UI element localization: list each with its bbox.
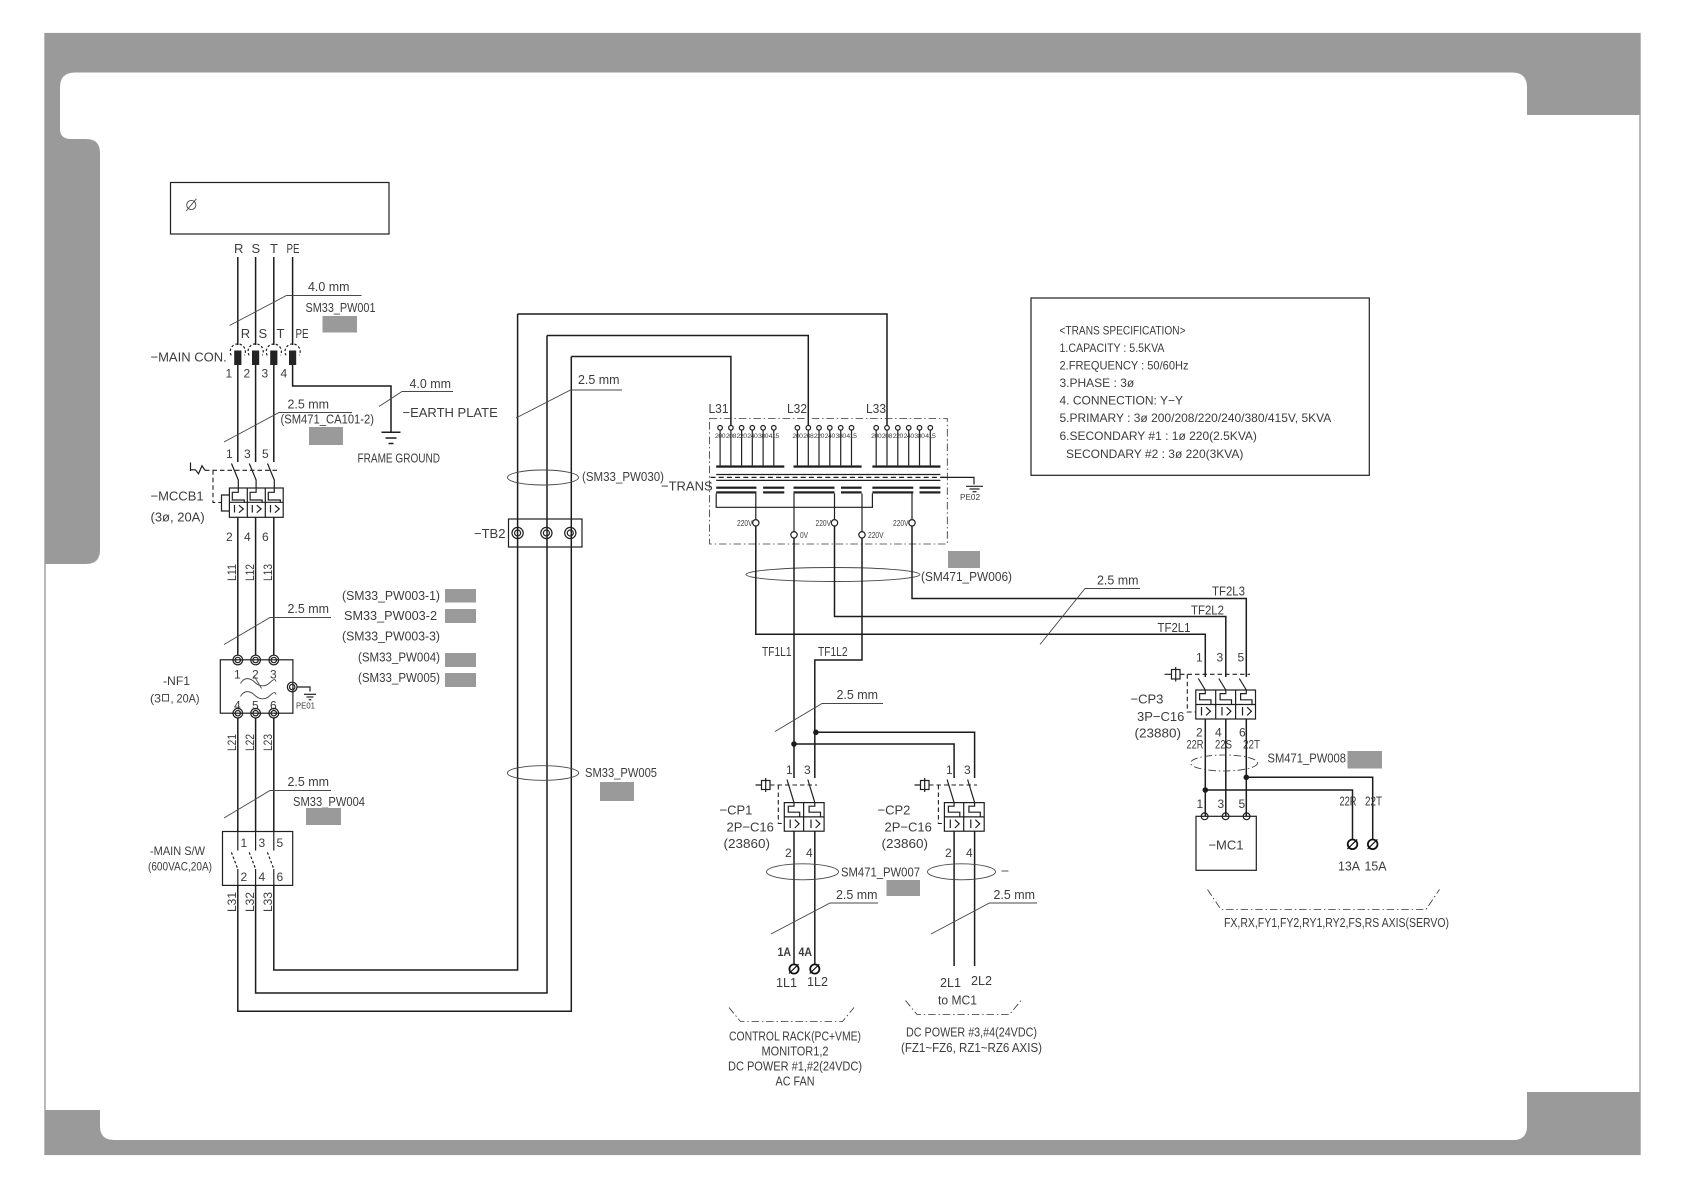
svg-text:2.5 mm: 2.5 mm — [994, 887, 1036, 902]
breaker CP1 blade 1 — [787, 780, 794, 803]
NF1 terminal 1 — [233, 655, 243, 665]
svg-text:2.5 mm: 2.5 mm — [288, 397, 330, 412]
wire TF2L3 — [912, 526, 1246, 677]
svg-text:3: 3 — [244, 447, 251, 461]
junction dot 22T — [1244, 775, 1250, 781]
svg-text:22R: 22R — [1187, 738, 1204, 752]
cable marker ellipse CP3 — [1191, 755, 1258, 771]
tap terminal group3 220V — [896, 426, 901, 431]
MAIN S/W pole2 top stub — [255, 832, 257, 851]
wire CP2 out 1 — [953, 831, 955, 966]
svg-text:220V: 220V — [868, 531, 884, 540]
svg-text:5.PRIMARY : 3ø 200/208/220/240: 5.PRIMARY : 3ø 200/208/220/240/380/415V,… — [1060, 411, 1332, 425]
svg-text:SM33_PW003-2: SM33_PW003-2 — [344, 608, 437, 623]
svg-text:3: 3 — [259, 836, 266, 850]
svg-text:−MCCB1: −MCCB1 — [151, 489, 204, 504]
svg-text:PE: PE — [296, 326, 309, 341]
svg-text:L13: L13 — [261, 564, 275, 581]
svg-text:240: 240 — [747, 433, 758, 440]
svg-text:(SM33_PW004): (SM33_PW004) — [358, 650, 440, 665]
wire L12 — [255, 517, 257, 655]
svg-text:(SM33_PW003-3): (SM33_PW003-3) — [342, 629, 440, 644]
wire feeder L33 top run to transformer tap — [518, 314, 887, 426]
wire tap to CP2 pin1 — [794, 744, 954, 778]
NF1 terminal 2 — [251, 655, 261, 665]
breaker MCCB1 linkage bracket — [222, 495, 230, 511]
primary winding bar 1 — [716, 465, 784, 467]
svg-text:−TRANS: −TRANS — [661, 479, 713, 494]
gray bottom band with left and right tabs — [45, 1092, 1640, 1155]
svg-text:(3: (3 — [150, 692, 161, 706]
tap terminal group2 200V — [795, 426, 800, 431]
svg-text:6.SECONDARY #1 : 1ø 220(2.5KVA: 6.SECONDARY #1 : 1ø 220(2.5KVA) — [1060, 429, 1257, 443]
svg-text:4: 4 — [259, 870, 266, 884]
svg-text:PE: PE — [287, 241, 300, 256]
tap terminal group1 380V — [761, 426, 766, 431]
breaker CP1 magnetic I> — [790, 820, 820, 829]
svg-text:2: 2 — [945, 846, 952, 860]
svg-text:SM33_PW004: SM33_PW004 — [293, 794, 365, 809]
contactor MC1 body — [1196, 816, 1256, 870]
wire PE vertical — [292, 257, 294, 345]
breaker CP1 trip symbol — [756, 778, 771, 792]
redaction block CA101-2 — [309, 427, 343, 445]
svg-text:2L2: 2L2 — [971, 973, 992, 988]
breaker MCCB1 trip handle — [190, 463, 192, 472]
svg-text:−MAIN CON.: −MAIN CON. — [151, 350, 227, 365]
noise filter NF1 body — [220, 660, 293, 713]
wire L31 routing to TB2 right — [238, 357, 572, 1012]
wire CP1 out 2 — [814, 831, 816, 964]
TB2 terminal 1 — [512, 527, 523, 538]
svg-text:(SM471_CA101-2): (SM471_CA101-2) — [281, 412, 375, 427]
MAIN S/W pole3 bottom stub — [273, 869, 275, 885]
cable marker ellipse CP1 — [767, 864, 839, 880]
svg-text:220V: 220V — [737, 519, 753, 528]
svg-text:R: R — [241, 326, 250, 341]
MAIN S/W blade 1 dashed — [231, 852, 237, 869]
svg-text:TF1L1: TF1L1 — [762, 644, 792, 659]
svg-text:22R: 22R — [1340, 794, 1357, 809]
TB2 terminal 2 — [541, 527, 552, 538]
connector pole 4 — [281, 344, 301, 381]
svg-text:PE02: PE02 — [960, 493, 981, 502]
svg-text:4.0 mm: 4.0 mm — [410, 376, 452, 391]
svg-text:L22: L22 — [243, 734, 257, 751]
svg-text:415: 415 — [769, 433, 780, 440]
svg-text:PE01: PE01 — [296, 702, 316, 711]
svg-text:5: 5 — [262, 447, 269, 461]
redaction block PW005b — [600, 782, 634, 801]
svg-text:SM33_PW001: SM33_PW001 — [306, 300, 376, 315]
switch MAIN S/W body — [223, 832, 293, 886]
svg-text:22S: 22S — [1215, 738, 1232, 752]
svg-text:240: 240 — [904, 433, 915, 440]
bracket control rack — [729, 1008, 854, 1022]
svg-text:L12: L12 — [243, 564, 257, 581]
svg-text:3P−C16: 3P−C16 — [1137, 709, 1184, 724]
tap terminal group1 240V — [750, 426, 755, 431]
transformer core lines — [716, 475, 940, 481]
redaction block PW008 — [1348, 751, 1383, 769]
redaction block PW004b — [306, 808, 341, 825]
wire CP1 out 1 — [793, 831, 795, 964]
svg-text:220: 220 — [893, 433, 904, 440]
breaker MCCB1 blade pole3 — [268, 464, 275, 489]
svg-text:220: 220 — [737, 433, 748, 440]
MAIN S/W pole1 top stub — [237, 832, 239, 851]
svg-text:1: 1 — [786, 763, 793, 777]
svg-text:SM33_PW005: SM33_PW005 — [585, 765, 657, 780]
tap terminal group1 200V — [718, 426, 723, 431]
bracket dc power 3,4 — [906, 1001, 1022, 1015]
fuse terminal 15A — [1368, 839, 1378, 849]
svg-text:4. CONNECTION: Y−Y: 4. CONNECTION: Y−Y — [1060, 394, 1183, 408]
svg-text:TF2L3: TF2L3 — [1212, 584, 1245, 599]
cable marker ellipse SM33_PW005 — [507, 766, 578, 781]
breaker MCCB1 trip linkage dashed — [205, 469, 277, 471]
secondary winding bars row1 — [716, 487, 940, 489]
svg-text:1: 1 — [234, 668, 241, 682]
svg-text:−EARTH PLATE: −EARTH PLATE — [403, 405, 499, 420]
svg-text:4: 4 — [244, 530, 251, 544]
bracket servo axis — [1208, 890, 1440, 910]
connector pole 1 — [226, 344, 246, 381]
svg-text:S: S — [259, 326, 268, 341]
svg-text:4: 4 — [966, 846, 973, 860]
svg-text:4A: 4A — [799, 945, 813, 959]
svg-text:13A: 13A — [1338, 859, 1360, 874]
svg-text:−CP2: −CP2 — [878, 803, 911, 818]
svg-text:2.5 mm: 2.5 mm — [1097, 573, 1139, 588]
breaker CP1 body — [784, 803, 824, 832]
transformer TRANS dash-dot boundary — [710, 419, 948, 545]
secondary tap 220V d — [911, 494, 913, 520]
redaction block PW004 — [445, 653, 476, 667]
breaker MCCB1 blade pole2 — [249, 464, 256, 489]
svg-text:15A: 15A — [1365, 859, 1387, 874]
svg-text:L33: L33 — [866, 401, 886, 416]
svg-text:3: 3 — [804, 763, 811, 777]
breaker CP1 trip linkage dashed — [770, 784, 817, 786]
wire L21 — [237, 718, 239, 832]
svg-text:−MC1: −MC1 — [1208, 838, 1243, 853]
TB2 terminal 3 — [565, 527, 576, 538]
tap terminal group2 415V — [849, 426, 854, 431]
wire L11 — [237, 517, 239, 655]
wire 22R branch — [1205, 790, 1352, 839]
svg-text:(SM33_PW005): (SM33_PW005) — [358, 670, 440, 685]
tap terminal group1 220V — [739, 426, 744, 431]
svg-text:L21: L21 — [225, 734, 239, 751]
NF1 terminal 6 — [269, 708, 279, 718]
breaker CP2 blade 2 — [968, 780, 975, 803]
wire TF2L1 — [756, 526, 1206, 677]
MAIN S/W blade 2 dashed — [249, 852, 255, 869]
svg-text:TF2L2: TF2L2 — [1191, 603, 1224, 618]
wire R connector to MCCB1 — [237, 365, 239, 462]
wire L13 — [273, 517, 275, 655]
NF1 terminal 3 — [269, 655, 279, 665]
svg-text:2.5 mm: 2.5 mm — [288, 774, 330, 789]
svg-text:L32: L32 — [787, 401, 807, 416]
breaker CP3 trip symbol — [1165, 667, 1181, 682]
wire TF1L1 — [793, 538, 795, 778]
svg-text:1: 1 — [241, 836, 248, 850]
wire CP2 out 2 — [974, 831, 976, 966]
MC1 terminal 5 — [1243, 813, 1250, 820]
wire L23 — [273, 718, 275, 832]
wire feeder L31 top run to transformer tap — [571, 357, 731, 426]
svg-text:TF2L1: TF2L1 — [1158, 620, 1191, 635]
svg-text:L31: L31 — [709, 401, 729, 416]
breaker CP1 thermal elements — [788, 803, 799, 817]
tap terminal group2 220V — [817, 426, 822, 431]
svg-text:(600VAC,20A): (600VAC,20A) — [148, 860, 212, 874]
connector pole 2 — [244, 344, 264, 381]
svg-text:T: T — [277, 326, 285, 341]
cable marker ellipse SM33_PW030 — [508, 470, 579, 485]
breaker MCCB1 body — [229, 488, 283, 517]
svg-text:240: 240 — [825, 433, 836, 440]
cable marker ellipse SM471_PW006 — [746, 568, 920, 582]
MC1 terminal 3 — [1222, 813, 1229, 820]
svg-text:(23880): (23880) — [1135, 726, 1182, 741]
svg-text:3.PHASE : 3ø: 3.PHASE : 3ø — [1060, 376, 1135, 390]
svg-text:TF1L2: TF1L2 — [818, 644, 848, 659]
svg-text:1L2: 1L2 — [807, 974, 828, 989]
redaction block PW001 — [323, 316, 358, 333]
svg-text:FX,RX,FY1,FY2,RY1,RY2,FS,RS AX: FX,RX,FY1,FY2,RY1,RY2,FS,RS AXIS(SERVO) — [1224, 915, 1449, 930]
NF1 terminal 5 — [251, 708, 261, 718]
MAIN S/W pole1 bottom stub — [237, 869, 239, 885]
svg-text:1.CAPACITY : 5.5KVA: 1.CAPACITY : 5.5KVA — [1060, 341, 1165, 355]
svg-text:−CP1: −CP1 — [720, 803, 753, 818]
svg-text:(SM33_PW003-1): (SM33_PW003-1) — [342, 588, 440, 603]
svg-text:200: 200 — [715, 433, 726, 440]
svg-text:380: 380 — [758, 433, 769, 440]
breaker MCCB1 thermal elements — [232, 488, 244, 502]
svg-text:220V: 220V — [893, 519, 909, 528]
svg-text:415: 415 — [925, 433, 936, 440]
svg-text:6: 6 — [277, 870, 284, 884]
svg-text:(FZ1~FZ6, RZ1~RZ6 AXIS): (FZ1~FZ6, RZ1~RZ6 AXIS) — [901, 1040, 1042, 1055]
wire tap to CP2 pin3 — [816, 732, 975, 778]
svg-text:3: 3 — [1218, 797, 1225, 811]
redaction block PW003-2 — [445, 609, 476, 623]
wire core to PE02 — [940, 477, 974, 484]
secondary tap 220V a — [755, 494, 757, 520]
breaker CP3 thermal elements — [1200, 690, 1211, 705]
primary winding bar 3 — [872, 465, 940, 467]
source box — [171, 183, 390, 235]
svg-text:(SM471_PW006): (SM471_PW006) — [921, 569, 1012, 584]
trans specification box — [1031, 298, 1369, 475]
svg-text:0V: 0V — [800, 531, 809, 540]
MC1 terminal 1 — [1201, 813, 1208, 820]
wire S connector to MCCB1 — [255, 365, 257, 462]
svg-text:DC POWER #1,#2(24VDC): DC POWER #1,#2(24VDC) — [728, 1059, 862, 1074]
svg-text:2P−C16: 2P−C16 — [727, 820, 774, 835]
svg-text:200: 200 — [871, 433, 882, 440]
NF1 PE terminal — [287, 682, 297, 692]
MAIN S/W blade 3 dashed — [267, 852, 273, 869]
svg-text:5: 5 — [1238, 651, 1245, 665]
svg-text:1A: 1A — [778, 945, 792, 959]
svg-text:to MC1: to MC1 — [938, 993, 977, 1008]
wire CP3 out 1 — [1204, 719, 1206, 816]
secondary tap 0V — [793, 494, 795, 532]
svg-text:380: 380 — [914, 433, 925, 440]
svg-text:208: 208 — [882, 433, 893, 440]
wire 22T branch — [1246, 777, 1372, 839]
breaker CP3 blade 1 — [1198, 679, 1205, 691]
breaker CP3 blade 2 — [1219, 679, 1226, 691]
primary winding bar 2 — [794, 465, 862, 467]
svg-text:22T: 22T — [1365, 794, 1382, 809]
junction dot 22R — [1203, 787, 1209, 793]
svg-text:2L1: 2L1 — [940, 975, 961, 990]
tap terminal group3 208V — [885, 426, 890, 431]
svg-text:1: 1 — [946, 763, 953, 777]
MAIN S/W pole2 bottom stub — [255, 869, 257, 885]
svg-text:1: 1 — [1197, 797, 1204, 811]
wire TF1L2 — [815, 538, 862, 778]
svg-text:1: 1 — [1196, 651, 1203, 665]
svg-text:2.FREQUENCY : 50/60Hz: 2.FREQUENCY : 50/60Hz — [1060, 359, 1189, 373]
svg-text:2.5 mm: 2.5 mm — [837, 687, 879, 702]
svg-text:MONITOR1,2: MONITOR1,2 — [762, 1044, 829, 1059]
connector pole 3 — [262, 344, 282, 380]
svg-text:200: 200 — [792, 433, 803, 440]
breaker MCCB1 blade pole1 — [232, 464, 239, 489]
svg-text:4: 4 — [806, 846, 813, 860]
breaker CP2 trip linkage dashed — [929, 784, 977, 786]
svg-text:2.5 mm: 2.5 mm — [578, 372, 620, 387]
breaker CP3 body — [1196, 690, 1256, 719]
svg-text:5: 5 — [1239, 797, 1246, 811]
svg-text:208: 208 — [803, 433, 814, 440]
svg-text:3: 3 — [1217, 651, 1224, 665]
breaker CP2 body — [944, 803, 984, 832]
wire CP3 out 3 — [1245, 719, 1247, 816]
svg-text:-MAIN S/W: -MAIN S/W — [150, 844, 206, 858]
svg-text:3: 3 — [964, 763, 971, 777]
wire PE to earth plate — [293, 365, 391, 432]
junction dot TF1L1 — [791, 741, 797, 747]
breaker CP2 magnetic I> — [950, 820, 979, 829]
wire NF1 PE to ground — [297, 687, 310, 692]
tap terminal group2 208V — [806, 426, 811, 431]
tap terminal group3 240V — [906, 426, 911, 431]
svg-text:(23860): (23860) — [882, 836, 929, 851]
svg-text:2.5 mm: 2.5 mm — [836, 887, 878, 902]
svg-text:DC POWER #3,#4(24VDC): DC POWER #3,#4(24VDC) — [906, 1025, 1037, 1040]
svg-text:<TRANS SPECIFICATION>: <TRANS SPECIFICATION> — [1060, 324, 1186, 338]
svg-text:220V: 220V — [816, 519, 832, 528]
wire L32 routing to TB2 middle — [256, 336, 547, 994]
fuse terminal 13A — [1347, 839, 1357, 849]
svg-text:AC FAN: AC FAN — [776, 1074, 815, 1089]
breaker CP2 trip symbol — [915, 778, 930, 792]
svg-text:2: 2 — [226, 530, 233, 544]
redaction block PW005 — [445, 673, 476, 687]
svg-text:L11: L11 — [225, 564, 239, 581]
svg-text:T: T — [270, 241, 278, 256]
svg-text:208: 208 — [726, 433, 737, 440]
tap terminal group1 415V — [772, 426, 777, 431]
tap terminal group3 380V — [917, 426, 922, 431]
junction dot TF1L2 — [813, 730, 819, 736]
tap terminal group3 415V — [928, 426, 933, 431]
breaker CP1 blade 2 — [808, 780, 815, 803]
secondary tap 220V b — [834, 494, 836, 520]
svg-text:SM471_PW008: SM471_PW008 — [1268, 751, 1347, 766]
NF1 terminal 4 — [233, 708, 243, 718]
gray top band with left tab and top-right tab — [45, 33, 1640, 564]
svg-text:1: 1 — [226, 447, 233, 461]
wire L33 routing to TB2 left — [274, 314, 518, 970]
breaker CP2 thermal elements — [948, 803, 959, 817]
svg-text:L23: L23 — [261, 734, 275, 751]
svg-text:CONTROL RACK(PC+VME): CONTROL RACK(PC+VME) — [729, 1029, 861, 1044]
wire L22 — [255, 718, 257, 832]
breaker CP3 magnetic I> — [1202, 707, 1252, 716]
svg-text:-NF1: -NF1 — [163, 674, 190, 688]
secondary link wire — [716, 494, 872, 508]
MAIN S/W pole3 top stub — [273, 832, 275, 851]
breaker CP3 blade 3 — [1239, 679, 1246, 691]
fuse terminal 1A — [789, 964, 799, 973]
redaction block PW003-1 — [445, 589, 476, 603]
svg-text:2: 2 — [241, 870, 248, 884]
svg-text:2: 2 — [244, 367, 251, 381]
tap terminal group2 380V — [838, 426, 843, 431]
wire T vertical — [273, 257, 275, 345]
ground PE02 — [966, 486, 983, 491]
tap terminal group1 208V — [729, 426, 734, 431]
svg-text:SECONDARY #2 : 3ø 220(3KVA): SECONDARY #2 : 3ø 220(3KVA) — [1066, 447, 1243, 461]
ground frame ground — [382, 432, 401, 443]
wire feeder L32 top run to transformer tap — [547, 336, 808, 426]
secondary tap 220V c — [861, 494, 863, 532]
svg-text:(SM33_PW030): (SM33_PW030) — [582, 469, 664, 484]
svg-text:380: 380 — [836, 433, 847, 440]
redaction block PW006 — [948, 551, 980, 568]
svg-text:415: 415 — [846, 433, 857, 440]
svg-text:FRAME GROUND: FRAME GROUND — [358, 451, 441, 466]
svg-text:4: 4 — [281, 367, 288, 381]
svg-text:5: 5 — [277, 836, 284, 850]
svg-text:(23860): (23860) — [724, 836, 771, 851]
cable marker ellipse CP2 — [928, 864, 996, 880]
breaker CP3 trip linkage dashed — [1180, 673, 1250, 675]
svg-text:−CP3: −CP3 — [1131, 692, 1164, 707]
svg-text:2: 2 — [252, 668, 259, 682]
svg-text:6: 6 — [262, 530, 269, 544]
wire R vertical — [237, 257, 239, 345]
wire S vertical — [255, 257, 257, 345]
terminal block TB2 body — [509, 519, 583, 547]
svg-text:, 20A): , 20A) — [171, 692, 200, 706]
tap terminal group2 240V — [828, 426, 833, 431]
breaker MCCB1 magnetic I> symbols — [235, 505, 280, 513]
svg-text:3: 3 — [262, 367, 269, 381]
wire TF2L2 — [835, 526, 1226, 677]
svg-text:R: R — [234, 241, 243, 256]
svg-text:SM471_PW007: SM471_PW007 — [841, 865, 920, 880]
svg-text:2.5 mm: 2.5 mm — [288, 601, 330, 616]
